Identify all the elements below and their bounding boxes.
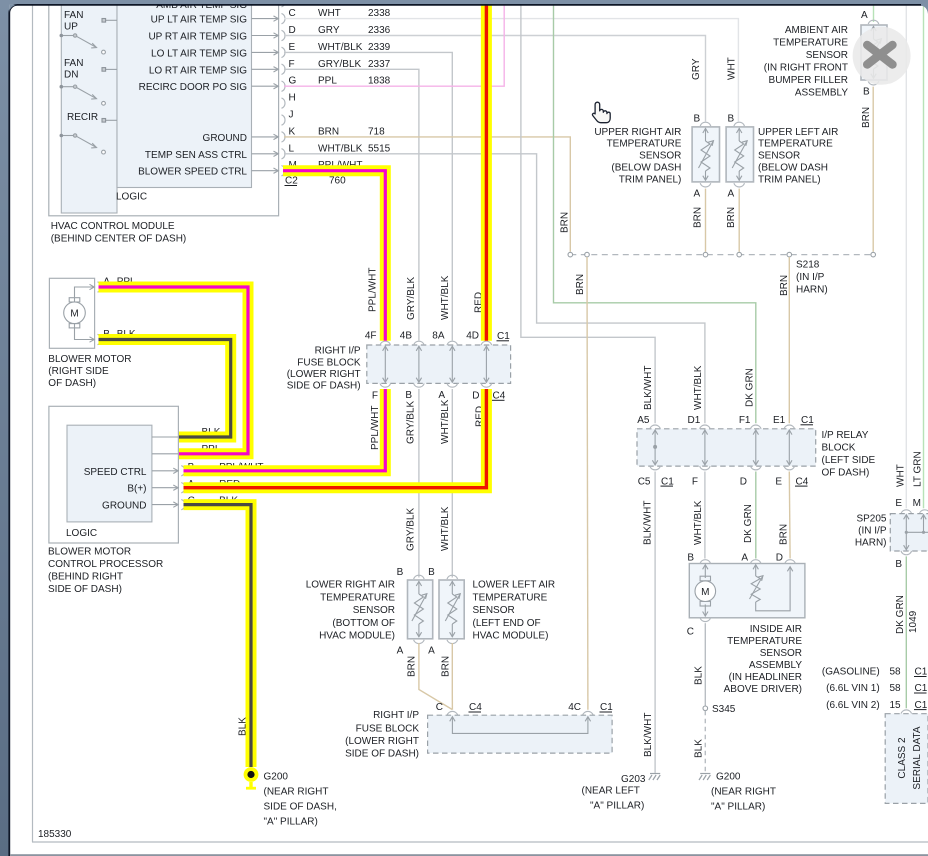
svg-text:INSIDE AIR: INSIDE AIR: [750, 624, 802, 635]
relay internal arrow column F1-D: [753, 430, 758, 465]
arrow to processor pin C: [152, 502, 178, 507]
svg-text:WHT/BLK: WHT/BLK: [318, 143, 363, 154]
switch FAN DN: [60, 68, 118, 106]
wire GRY/BLK 2337 from pin F down to fuse block 4B: [284, 69, 419, 340]
svg-text:UP RT AIR TEMP SIG: UP RT AIR TEMP SIG: [148, 32, 247, 43]
splice S218 bus (dashed): [570, 254, 873, 256]
svg-text:CLASS 2: CLASS 2: [897, 737, 908, 779]
wire LT GRN to ambient sensor pin A: [873, 0, 875, 22]
svg-text:SIDE OF DASH): SIDE OF DASH): [48, 584, 122, 595]
svg-text:UP LT AIR TEMP SIG: UP LT AIR TEMP SIG: [151, 15, 248, 26]
arrow to pin D: [252, 33, 279, 38]
svg-text:2337: 2337: [368, 59, 391, 70]
svg-text:DK GRN: DK GRN: [895, 595, 906, 634]
svg-text:LOWER RIGHT AIR: LOWER RIGHT AIR: [306, 580, 395, 591]
svg-text:(RIGHT SIDE: (RIGHT SIDE: [48, 366, 109, 377]
wire BRN from S218 down to relay E1: [788, 257, 790, 423]
svg-text:TEMP SEN ASS CTRL: TEMP SEN ASS CTRL: [145, 150, 248, 161]
processor input wire PPL from blower A: [152, 453, 179, 455]
fuse block internal arrow column 4B-B: [416, 346, 421, 382]
highlighted wire RED: top trunk to fuse 4D: [481, 0, 492, 341]
svg-text:GRY: GRY: [691, 58, 702, 80]
svg-text:4D: 4D: [466, 331, 479, 342]
class 2 serial data pin arc: [901, 710, 912, 714]
wire BRN upper left sensor to S218: [738, 189, 740, 252]
svg-text:A: A: [694, 189, 701, 200]
lower left air temp sensor box: [439, 580, 464, 639]
HVAC module pin K connector arc: [282, 132, 286, 142]
svg-text:BRN: BRN: [861, 107, 872, 128]
blower motor box: [49, 278, 94, 348]
svg-text:FAN: FAN: [64, 58, 83, 69]
svg-text:B: B: [687, 553, 694, 564]
wire BRN lower right sensor to bottom fuse block: [419, 643, 452, 710]
svg-text:SENSOR: SENSOR: [758, 151, 800, 162]
close (X) button: [853, 27, 911, 85]
relay internal arrow column E1-E: [787, 430, 792, 465]
svg-text:C: C: [289, 8, 296, 19]
svg-text:GRY: GRY: [318, 25, 340, 36]
svg-text:A: A: [741, 553, 748, 564]
svg-text:(BEHIND CENTER OF DASH): (BEHIND CENTER OF DASH): [51, 234, 187, 245]
HVAC module pin F connector arc: [282, 64, 286, 74]
svg-text:BRN: BRN: [779, 275, 790, 296]
thermistor (ambient sensor): [867, 26, 882, 79]
svg-text:F1: F1: [739, 415, 751, 426]
svg-text:BRN: BRN: [693, 207, 704, 228]
highlighted wire PPL/WHT: fuse F down and left to processor pin B: [184, 389, 386, 471]
svg-text:AMBIENT AIR: AMBIENT AIR: [785, 25, 848, 36]
processor pin A arc: [181, 483, 185, 493]
svg-text:BLOWER SPEED CTRL: BLOWER SPEED CTRL: [138, 167, 247, 178]
svg-text:C2: C2: [285, 176, 298, 187]
svg-text:GRY/BLK: GRY/BLK: [406, 277, 417, 320]
wire WHT/BLK from fuse A down to lower left air temp sensor: [451, 389, 453, 578]
S218 splice node (upper right sensor): [703, 252, 708, 257]
svg-text:WHT/BLK: WHT/BLK: [440, 399, 451, 444]
S218 splice node BRN drop to fuse block 4C: [585, 252, 590, 257]
svg-text:UPPER LEFT AIR: UPPER LEFT AIR: [758, 127, 838, 138]
svg-text:PPL/WHT: PPL/WHT: [368, 268, 379, 312]
svg-text:BLK: BLK: [694, 739, 705, 758]
svg-text:"A" PILLAR): "A" PILLAR): [590, 801, 644, 812]
svg-text:WHT/BLK: WHT/BLK: [693, 500, 704, 545]
highlighted wire BLK: processor C ground to G200: [184, 505, 252, 767]
svg-text:5515: 5515: [368, 143, 391, 154]
svg-text:(6.6L VIN 2): (6.6L VIN 2): [826, 700, 880, 711]
aspirator motor M (inside air sensor): [695, 565, 716, 617]
svg-text:BLK: BLK: [694, 666, 705, 685]
svg-text:BLK/WHT: BLK/WHT: [643, 713, 654, 757]
S218 splice node right (ambient sensor): [871, 252, 876, 257]
lower right air temp sensor box: [408, 580, 433, 639]
svg-text:4B: 4B: [400, 331, 413, 342]
svg-text:LT GRN: LT GRN: [913, 451, 924, 487]
svg-text:OF DASH): OF DASH): [822, 467, 870, 478]
svg-text:C: C: [436, 702, 443, 713]
svg-text:BUMPER FILLER: BUMPER FILLER: [769, 75, 848, 86]
HVAC module pin H connector arc: [282, 98, 286, 108]
svg-text:LO LT AIR TEMP SIG: LO LT AIR TEMP SIG: [151, 48, 247, 59]
arrow to pin M: [252, 168, 279, 173]
processor input wire BLK from blower B: [152, 436, 179, 438]
svg-text:G203: G203: [621, 774, 646, 785]
HVAC module pin E connector arc: [282, 47, 286, 57]
svg-text:PPL: PPL: [318, 76, 337, 87]
svg-text:(IN I/P: (IN I/P: [858, 525, 887, 536]
svg-text:GROUND: GROUND: [102, 501, 146, 512]
svg-text:M: M: [701, 587, 709, 598]
svg-text:"A" PILLAR): "A" PILLAR): [711, 802, 765, 813]
svg-text:58: 58: [890, 667, 902, 678]
window chrome top bar background: [0, 0, 928, 5]
splice S345: [703, 706, 708, 711]
svg-text:DK GRN: DK GRN: [743, 504, 754, 543]
svg-text:HVAC MODULE): HVAC MODULE): [319, 630, 395, 641]
wire WHT/BLK 5515 from pin L to I/P relay block D1: [284, 154, 705, 424]
mouse cursor (hand pointer): [592, 102, 610, 123]
svg-text:D: D: [472, 391, 479, 402]
blower motor M symbol: [64, 298, 86, 328]
wire GRY/BLK from fuse B down to lower right air temp sensor: [418, 389, 420, 578]
svg-text:WHT: WHT: [318, 8, 341, 19]
svg-text:G200: G200: [716, 772, 741, 783]
svg-text:B: B: [405, 390, 412, 401]
svg-text:A5: A5: [637, 415, 650, 426]
arrow to pin row (cut off at top): [252, 0, 279, 4]
svg-text:SIDE OF DASH): SIDE OF DASH): [287, 381, 361, 392]
svg-text:A: A: [428, 646, 435, 657]
thermistor (upper right sensor): [699, 128, 714, 181]
svg-text:2338: 2338: [368, 8, 391, 19]
svg-text:G200: G200: [264, 772, 289, 783]
upper left air temp sensor box: [726, 127, 753, 182]
svg-text:BRN: BRN: [726, 207, 737, 228]
processor pin C arc: [181, 499, 185, 509]
bottom fuse block internal link: [450, 717, 591, 734]
svg-text:2339: 2339: [368, 42, 391, 53]
S218 splice node (upper left sensor): [737, 252, 742, 257]
svg-text:SP205: SP205: [856, 513, 886, 524]
arrow to processor pin A: [152, 485, 178, 490]
svg-text:TEMPERATURE: TEMPERATURE: [473, 593, 548, 604]
svg-text:B: B: [694, 114, 701, 125]
svg-text:2336: 2336: [368, 25, 391, 36]
svg-text:FUSE BLOCK: FUSE BLOCK: [297, 357, 361, 368]
wire WHT/BLK 2339 from pin E down to fuse block 8A: [284, 52, 452, 340]
highlighted wire PPL: blower motor A to processor input: [99, 287, 249, 454]
svg-text:G: G: [289, 76, 297, 87]
svg-text:HVAC MODULE): HVAC MODULE): [473, 630, 549, 641]
wire BRN upper right sensor to S218: [705, 189, 707, 252]
wire BRN 718 from pin K to splice S218: [284, 137, 570, 252]
svg-text:F: F: [692, 476, 698, 487]
wire BRN ambient sensor to S218: [872, 87, 874, 252]
blower motor control processor logic box: [67, 425, 152, 522]
svg-text:B: B: [895, 559, 902, 570]
svg-text:HARN): HARN): [796, 285, 828, 296]
arrow to pin K: [252, 134, 279, 139]
svg-text:J: J: [289, 110, 294, 121]
switch RECIR: [60, 119, 118, 155]
svg-text:B: B: [428, 567, 435, 578]
drawing frame bottom border: [32, 841, 928, 843]
svg-text:(6.6L VIN 1): (6.6L VIN 1): [826, 683, 880, 694]
svg-text:(NEAR RIGHT: (NEAR RIGHT: [711, 787, 776, 798]
wire BLK/WHT from relay C5 to ground G203: [654, 472, 656, 773]
HVAC module pin J connector arc: [282, 115, 286, 125]
arrow to pin L: [252, 151, 279, 156]
svg-text:BLK/WHT: BLK/WHT: [643, 366, 654, 410]
wire WHT 2338 from pin C to upper left air temp sensor: [284, 19, 738, 122]
svg-text:PPL/WHT: PPL/WHT: [370, 406, 381, 450]
svg-text:BRN: BRN: [440, 656, 451, 677]
arrow to pin E: [252, 50, 279, 55]
svg-text:SIDE OF DASH,: SIDE OF DASH,: [264, 802, 337, 813]
relay internal arrow column A5-C5: [652, 430, 657, 465]
svg-text:ABOVE DRIVER): ABOVE DRIVER): [724, 684, 802, 695]
svg-text:TEMPERATURE: TEMPERATURE: [727, 636, 802, 647]
svg-text:BRN: BRN: [778, 524, 789, 545]
svg-text:BRN: BRN: [407, 656, 418, 677]
svg-text:WHT/BLK: WHT/BLK: [318, 42, 363, 53]
svg-text:WHT/BLK: WHT/BLK: [440, 506, 451, 551]
svg-text:(NEAR LEFT: (NEAR LEFT: [582, 786, 640, 797]
highlighted wire PPL/WHT: HVAC module M to fuse 4F: [283, 171, 385, 341]
ground symbol G203: [649, 774, 660, 781]
svg-text:BRN: BRN: [318, 126, 339, 137]
svg-text:TEMPERATURE: TEMPERATURE: [773, 38, 848, 49]
wire DK GRN from SP205 B to class 2 serial data: [905, 556, 907, 708]
svg-text:(BOTTOM OF: (BOTTOM OF: [332, 618, 395, 629]
wire LT GRN down to SP205 pin M: [923, 0, 925, 508]
HVAC module pin D connector arc: [282, 30, 286, 40]
svg-text:H: H: [289, 93, 296, 104]
svg-text:BRN: BRN: [575, 274, 586, 295]
svg-text:L: L: [289, 143, 295, 154]
svg-text:SIDE OF DASH): SIDE OF DASH): [345, 749, 419, 760]
S218 splice node (BRN drop to relay E1): [787, 252, 792, 257]
blower motor control processor outer box: [49, 406, 179, 543]
wire DK GRN from relay D to inside air temp sensor A: [755, 472, 757, 559]
svg-text:TEMPERATURE: TEMPERATURE: [607, 139, 682, 150]
inside air temp sensor assembly box: [689, 564, 805, 618]
svg-text:RIGHT I/P: RIGHT I/P: [373, 710, 419, 721]
fuse block internal arrow column 8A-A: [450, 346, 455, 382]
HVAC module logic box: [117, 0, 252, 188]
svg-text:"A" PILLAR): "A" PILLAR): [264, 817, 318, 828]
svg-text:D: D: [289, 25, 296, 36]
svg-text:760: 760: [329, 176, 346, 187]
svg-text:BLOWER MOTOR: BLOWER MOTOR: [48, 547, 131, 558]
svg-text:GRY/BLK: GRY/BLK: [318, 59, 361, 70]
svg-text:(NEAR RIGHT: (NEAR RIGHT: [264, 787, 329, 798]
HVAC control module outer box: [49, 0, 279, 216]
svg-text:(LOWER RIGHT: (LOWER RIGHT: [345, 736, 419, 747]
svg-text:(LEFT END OF: (LEFT END OF: [473, 618, 541, 629]
drawing frame left border: [32, 5, 34, 842]
svg-text:E: E: [289, 42, 296, 53]
wire BLK from inside air sensor C to splice S345: [704, 623, 706, 706]
svg-text:SENSOR: SENSOR: [473, 605, 515, 616]
svg-text:A: A: [397, 646, 404, 657]
svg-text:DN: DN: [64, 70, 78, 81]
fuse block internal arrow column 4F-F: [383, 346, 388, 382]
svg-text:E: E: [895, 498, 902, 509]
svg-text:HVAC CONTROL MODULE: HVAC CONTROL MODULE: [51, 221, 175, 232]
svg-text:A: A: [861, 10, 868, 21]
upper right air temp sensor box: [692, 127, 719, 182]
svg-text:SENSOR: SENSOR: [639, 151, 681, 162]
svg-text:GROUND: GROUND: [203, 133, 247, 144]
SP205 internal column E-B: [904, 515, 928, 550]
svg-text:TRIM PANEL): TRIM PANEL): [619, 174, 682, 185]
svg-text:GRY/BLK: GRY/BLK: [406, 401, 417, 444]
wire BLK (dashed) from S345 to ground G200: [704, 711, 706, 773]
HVAC module pin L connector arc: [282, 149, 286, 159]
right I/P fuse block (bottom) box: [428, 715, 612, 753]
svg-text:F: F: [372, 391, 378, 402]
wire WHT down to SP205 pin E: [905, 0, 907, 508]
svg-text:FUSE BLOCK: FUSE BLOCK: [356, 724, 420, 735]
svg-text:LOGIC: LOGIC: [66, 528, 97, 539]
svg-text:LOGIC: LOGIC: [116, 192, 147, 203]
svg-text:TRIM PANEL): TRIM PANEL): [758, 174, 821, 185]
svg-text:WHT/BLK: WHT/BLK: [693, 365, 704, 410]
top-right corner background wedge: [921, 4, 928, 14]
arrow to pin C: [252, 16, 279, 21]
svg-text:A: A: [438, 390, 445, 401]
svg-text:E: E: [775, 476, 782, 487]
svg-text:GRY/BLK: GRY/BLK: [406, 508, 417, 551]
svg-text:4C: 4C: [568, 702, 581, 713]
svg-text:WHT/BLK: WHT/BLK: [440, 275, 451, 320]
svg-text:WHT: WHT: [727, 57, 738, 80]
svg-text:M: M: [913, 498, 921, 509]
processor pin B arc: [181, 466, 185, 476]
arrow to pin G: [252, 84, 279, 89]
svg-text:4F: 4F: [365, 331, 377, 342]
svg-text:58: 58: [890, 683, 902, 694]
svg-text:F: F: [289, 59, 295, 70]
svg-text:B: B: [728, 114, 735, 125]
wire BRN lower left sensor to bottom fuse block: [451, 643, 453, 710]
svg-text:SPEED CTRL: SPEED CTRL: [84, 467, 147, 478]
class 2 serial data box: [885, 714, 928, 804]
ambient air temp sensor box: [861, 25, 887, 80]
svg-text:ASSEMBLY: ASSEMBLY: [795, 88, 848, 99]
arrow to pin F: [252, 67, 279, 72]
svg-text:BLK/WHT: BLK/WHT: [643, 501, 654, 545]
svg-text:185330: 185330: [38, 829, 72, 840]
svg-text:1049: 1049: [908, 610, 919, 633]
wire BLK/WHT vertical trunk to I/P relay block A5: [521, 0, 655, 423]
svg-text:S218: S218: [796, 260, 820, 271]
svg-text:S345: S345: [712, 704, 736, 715]
svg-text:SENSOR: SENSOR: [760, 648, 802, 659]
svg-text:BRN: BRN: [559, 212, 570, 233]
thermistor (upper left sensor): [732, 128, 747, 181]
svg-text:LO RT AIR TEMP SIG: LO RT AIR TEMP SIG: [149, 65, 247, 76]
svg-text:BLOCK: BLOCK: [822, 442, 856, 453]
svg-text:ASSEMBLY: ASSEMBLY: [749, 660, 802, 671]
wire WHT/BLK from relay F to inside air temp sensor B: [704, 472, 706, 559]
thermistor (inside air sensor): [750, 565, 793, 611]
ground symbol G200 (right): [699, 774, 710, 781]
wire PPL 1838 from pin G up to top edge: [284, 0, 504, 86]
svg-text:SENSOR: SENSOR: [806, 50, 848, 61]
svg-text:RECIRC DOOR PO SIG: RECIRC DOOR PO SIG: [139, 82, 248, 93]
HVAC module pin C connector arc: [282, 13, 286, 23]
blower motor pin A arc: [98, 282, 102, 292]
svg-text:B(+): B(+): [127, 484, 146, 495]
blower motor pin B arc: [98, 334, 102, 344]
relay internal arrow column D1-F: [702, 430, 707, 465]
wire BRN from S218 down to bottom fuse block 4C: [586, 257, 589, 710]
svg-text:I/P RELAY: I/P RELAY: [822, 430, 869, 441]
wire DK GRN vertical trunk to I/P relay block F1: [554, 0, 756, 423]
svg-text:15: 15: [890, 700, 902, 711]
svg-text:DK GRN: DK GRN: [744, 368, 755, 407]
highlighted wire RED: fuse D down and left to processor pin A B(+): [184, 389, 487, 488]
svg-text:TEMPERATURE: TEMPERATURE: [758, 139, 833, 150]
fuse block internal arrow column 4D-D: [484, 346, 489, 382]
svg-text:OF DASH): OF DASH): [48, 378, 96, 389]
svg-text:(IN HEADLINER: (IN HEADLINER: [729, 672, 802, 683]
svg-text:RECIR: RECIR: [67, 112, 98, 123]
blower motor pin B wire to box edge: [75, 324, 95, 343]
svg-text:FAN: FAN: [64, 10, 83, 21]
svg-text:LOWER LEFT AIR: LOWER LEFT AIR: [473, 580, 556, 591]
HVAC module pin G connector arc: [282, 81, 286, 91]
svg-text:RIGHT I/P: RIGHT I/P: [315, 346, 361, 357]
SP205 splice box: [890, 514, 928, 551]
svg-text:TEMPERATURE: TEMPERATURE: [320, 593, 395, 604]
highlighted wire BLK: blower motor B to processor input: [99, 340, 231, 438]
svg-text:CONTROL PROCESSOR: CONTROL PROCESSOR: [48, 559, 163, 570]
thermistor (lower right sensor): [412, 581, 427, 637]
svg-text:8A: 8A: [432, 331, 445, 342]
svg-text:BLOWER MOTOR: BLOWER MOTOR: [48, 354, 131, 365]
svg-text:1838: 1838: [368, 76, 391, 87]
svg-text:718: 718: [368, 126, 385, 137]
svg-text:K: K: [289, 126, 296, 137]
arrow to processor pin B: [152, 468, 178, 473]
svg-text:WHT: WHT: [896, 464, 907, 487]
svg-text:SERIAL DATA: SERIAL DATA: [912, 726, 923, 789]
svg-text:C: C: [687, 627, 694, 638]
svg-text:(BELOW DASH: (BELOW DASH: [758, 163, 828, 174]
I/P relay block box: [637, 429, 816, 466]
HVAC module pin row (cut off at top) connector arc: [282, 0, 286, 7]
svg-text:UPPER RIGHT AIR: UPPER RIGHT AIR: [594, 127, 681, 138]
svg-text:B: B: [863, 87, 870, 98]
svg-text:UP: UP: [64, 22, 78, 33]
bottom edge line: [11, 854, 928, 856]
svg-text:D: D: [776, 553, 783, 564]
thermistor (lower left sensor): [445, 581, 460, 637]
svg-text:D: D: [740, 476, 747, 487]
wire GRY 2336 from pin D to upper right air temp sensor: [284, 36, 706, 122]
window chrome left band background: [0, 0, 9, 856]
S218 splice node left (BRN from pin K): [568, 252, 573, 257]
svg-text:A: A: [728, 189, 735, 200]
svg-text:M: M: [70, 309, 78, 320]
blower motor pin A wire to box edge: [75, 284, 95, 302]
wire BRN from relay E to inside air temp sensor D: [788, 472, 791, 559]
svg-text:HARN): HARN): [855, 537, 887, 548]
top-left corner background wedge: [9, 5, 17, 13]
